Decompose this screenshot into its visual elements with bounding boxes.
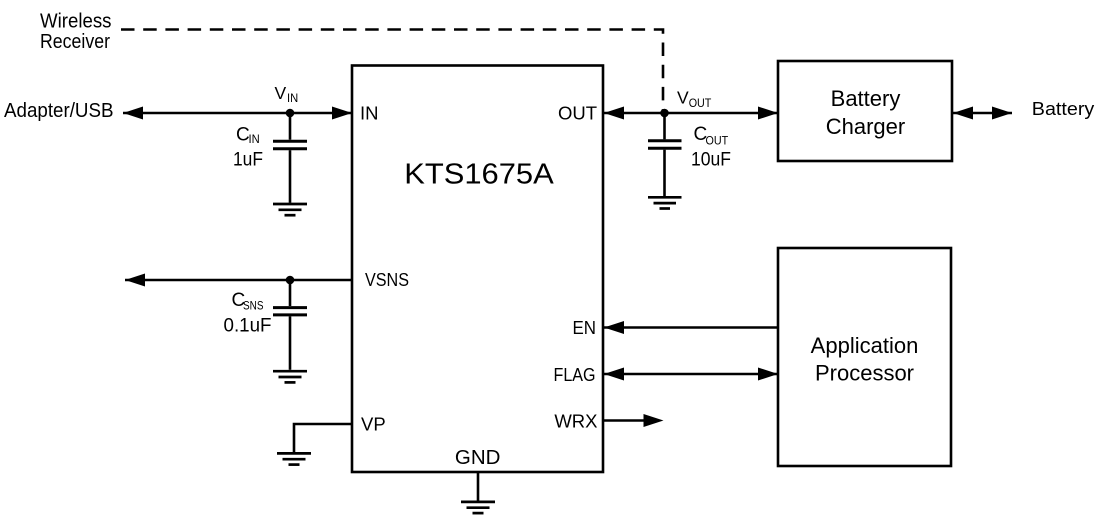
- svg-text:V: V: [275, 83, 287, 103]
- wire FLAG bidirectional: [604, 368, 778, 381]
- value label CSNS 0.1uF: [224, 290, 272, 337]
- ground for VP: [277, 453, 311, 464]
- svg-text:Battery: Battery: [831, 86, 901, 111]
- pin label FLAG: [554, 364, 596, 385]
- wire Adapter/USB to IN pin: [123, 107, 352, 120]
- svg-text:10uF: 10uF: [691, 150, 731, 171]
- block Battery Charger: [778, 61, 952, 161]
- pin label VSNS: [365, 269, 409, 290]
- svg-text:WRX: WRX: [554, 410, 597, 431]
- ground for CSNS: [273, 371, 307, 382]
- node label Battery: [1032, 98, 1095, 119]
- wire GND pin stub: [477, 472, 480, 501]
- capacitor C3 CSNS: [273, 280, 307, 370]
- svg-text:VSNS: VSNS: [365, 269, 409, 290]
- node label VIN: [275, 83, 299, 105]
- pin label WRX: [554, 410, 597, 431]
- svg-text:OUT: OUT: [558, 103, 597, 124]
- svg-text:EN: EN: [573, 317, 597, 338]
- wire OUT pin to Battery Charger: [603, 107, 778, 120]
- value label COUT 10uF: [691, 124, 731, 170]
- svg-text:Charger: Charger: [826, 114, 905, 139]
- capacitor C1 CIN: [273, 113, 307, 203]
- ground for COUT: [648, 197, 682, 208]
- svg-text:Application: Application: [811, 333, 919, 358]
- pin label GND: [455, 447, 501, 469]
- pin label OUT: [558, 103, 597, 124]
- svg-text:Receiver: Receiver: [40, 30, 110, 53]
- svg-text:0.1uF: 0.1uF: [224, 316, 272, 337]
- svg-text:Adapter/USB: Adapter/USB: [4, 99, 114, 122]
- node label Wireless Receiver: [40, 9, 112, 53]
- svg-text:FLAG: FLAG: [554, 364, 596, 385]
- svg-text:KTS1675A: KTS1675A: [404, 159, 554, 191]
- svg-text:SNS: SNS: [243, 299, 264, 313]
- wire WRX output: [604, 414, 664, 427]
- op IC U1 KTS1675A box: [352, 66, 603, 473]
- node VOUT junction dot: [660, 109, 669, 118]
- value label CIN 1uF: [233, 125, 263, 171]
- wire EN from Application Processor: [604, 321, 778, 334]
- svg-text:IN: IN: [287, 91, 298, 105]
- wire Battery Charger to Battery: [953, 107, 1012, 120]
- pin label IN: [360, 103, 379, 124]
- svg-text:V: V: [677, 88, 689, 108]
- node label VOUT: [677, 88, 712, 110]
- svg-text:Wireless: Wireless: [40, 9, 112, 32]
- svg-text:OUT: OUT: [689, 96, 712, 110]
- node label Adapter/USB: [4, 99, 114, 122]
- capacitor C2 COUT: [648, 113, 682, 196]
- svg-text:VP: VP: [361, 413, 386, 434]
- ground for CIN: [273, 204, 307, 215]
- ground for GND pin: [461, 502, 495, 513]
- wire VP to ground: [294, 424, 352, 452]
- node VSNS junction dot: [286, 276, 295, 285]
- node VIN junction dot: [286, 109, 295, 118]
- pin label VP: [361, 413, 386, 434]
- svg-text:IN: IN: [249, 132, 260, 146]
- wire VSNS to sense output: [125, 274, 352, 287]
- svg-text:1uF: 1uF: [233, 150, 263, 171]
- block Application Processor: [778, 248, 951, 466]
- wire dashed wireless-receiver to VOUT node: [121, 30, 663, 114]
- svg-text:IN: IN: [360, 103, 379, 124]
- pin label EN: [573, 317, 597, 338]
- svg-text:Processor: Processor: [815, 361, 914, 386]
- svg-text:OUT: OUT: [706, 133, 729, 147]
- svg-text:GND: GND: [455, 447, 501, 469]
- svg-text:Battery: Battery: [1032, 98, 1095, 119]
